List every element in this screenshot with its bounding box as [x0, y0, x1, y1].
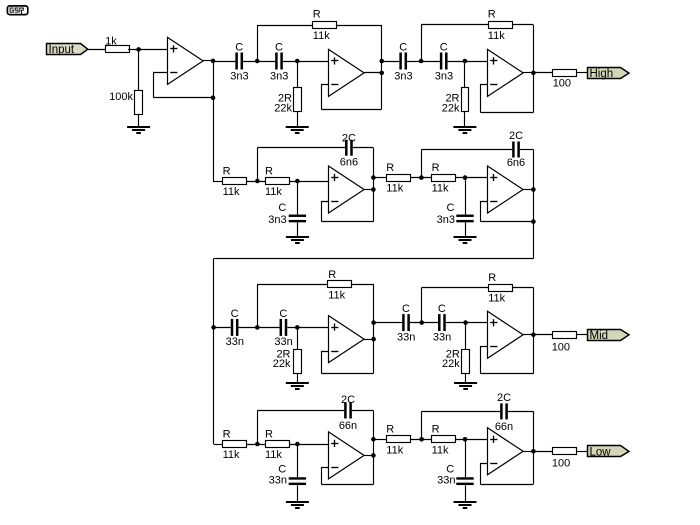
svg-text:33n: 33n [397, 331, 415, 343]
svg-text:R: R [432, 424, 440, 436]
svg-text:66n: 66n [495, 421, 513, 433]
svg-text:22k: 22k [442, 102, 460, 114]
svg-text:11k: 11k [223, 449, 240, 461]
svg-text:3n3: 3n3 [230, 70, 248, 82]
svg-text:3n3: 3n3 [268, 214, 286, 226]
svg-text:High: High [590, 68, 614, 80]
svg-text:66n: 66n [339, 420, 357, 432]
svg-text:3n3: 3n3 [435, 70, 453, 82]
svg-text:R: R [432, 162, 440, 174]
svg-text:C: C [235, 41, 243, 53]
svg-text:C: C [440, 41, 448, 53]
svg-text:11k: 11k [265, 449, 282, 461]
svg-text:33n: 33n [274, 336, 292, 348]
svg-text:11k: 11k [223, 186, 240, 198]
svg-text:11k: 11k [386, 183, 403, 195]
svg-text:22k: 22k [274, 102, 292, 114]
svg-text:C: C [399, 41, 407, 53]
svg-text:11k: 11k [432, 183, 449, 195]
svg-text:R: R [386, 162, 394, 174]
svg-text:R: R [223, 428, 231, 440]
svg-text:100: 100 [552, 458, 570, 470]
svg-text:2C: 2C [342, 133, 356, 145]
svg-text:R: R [223, 165, 231, 177]
svg-text:11k: 11k [313, 30, 330, 42]
svg-text:22k: 22k [442, 358, 460, 370]
svg-text:R: R [386, 424, 394, 436]
svg-text:33n: 33n [269, 475, 287, 487]
svg-text:R: R [265, 165, 273, 177]
svg-text:C: C [278, 202, 286, 214]
svg-text:Low: Low [590, 447, 612, 459]
svg-text:2C: 2C [341, 394, 355, 406]
svg-text:C: C [402, 303, 410, 315]
svg-text:2C: 2C [497, 392, 511, 404]
svg-text:11k: 11k [432, 444, 449, 456]
svg-text:3n3: 3n3 [394, 70, 412, 82]
svg-text:1k: 1k [105, 35, 117, 47]
svg-text:R: R [488, 9, 496, 21]
svg-text:11k: 11k [386, 444, 403, 456]
svg-text:100: 100 [553, 77, 571, 89]
svg-text:33n: 33n [437, 475, 455, 487]
svg-text:R: R [313, 9, 321, 21]
svg-text:22k: 22k [273, 358, 291, 370]
svg-text:100: 100 [552, 342, 570, 354]
svg-text:6n6: 6n6 [340, 157, 358, 169]
svg-text:3n3: 3n3 [437, 214, 455, 226]
svg-text:11k: 11k [328, 289, 345, 301]
svg-text:33n: 33n [226, 336, 244, 348]
svg-text:33n: 33n [433, 331, 451, 343]
svg-text:C: C [231, 308, 239, 320]
svg-text:Mid: Mid [590, 330, 609, 342]
svg-text:C: C [279, 308, 287, 320]
svg-text:C: C [446, 202, 454, 214]
svg-text:C: C [275, 41, 283, 53]
svg-text:11k: 11k [488, 30, 505, 42]
svg-text:2C: 2C [509, 130, 523, 142]
svg-text:11k: 11k [488, 293, 505, 305]
svg-text:11k: 11k [265, 186, 282, 198]
svg-text:C: C [438, 303, 446, 315]
svg-text:Input: Input [49, 44, 75, 56]
svg-text:3n3: 3n3 [270, 70, 288, 82]
svg-text:6n6: 6n6 [507, 157, 525, 169]
svg-text:R: R [265, 428, 273, 440]
svg-text:R: R [488, 272, 496, 284]
svg-text:R: R [328, 269, 336, 281]
svg-text:100k: 100k [109, 91, 133, 103]
